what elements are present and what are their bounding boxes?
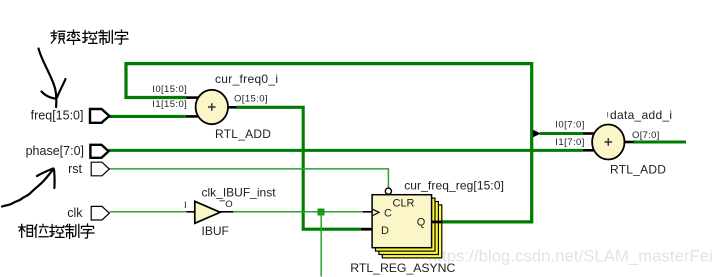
adder body	[592, 125, 624, 160]
annotation arrow to freq	[39, 49, 66, 108]
pin stub I	[187, 211, 196, 213]
plus sign	[208, 103, 216, 111]
wire: data_add O output	[634, 141, 687, 144]
annotation arrow to rst	[2, 169, 55, 207]
junction on clk_IBUF net	[318, 209, 325, 216]
wire: adder O to register D	[236, 107, 360, 229]
buffer triangle	[195, 201, 220, 223]
svg-text:Q: Q	[417, 216, 426, 228]
svg-text:phase[7:0]: phase[7:0]	[26, 144, 84, 158]
buffer clk_IBUF_inst	[184, 185, 276, 238]
junction arrow into data_add I0	[533, 130, 541, 137]
port clk	[67, 206, 109, 220]
wire: freq port to adder I1	[109, 115, 186, 118]
pin stub I1	[186, 115, 198, 118]
svg-text:I0[7:0]: I0[7:0]	[555, 119, 585, 130]
port rst	[68, 162, 109, 176]
svg-text:RTL_ADD: RTL_ADD	[215, 127, 271, 141]
wire: phase port to data_add I1	[109, 149, 583, 152]
svg-text:I1[7:0]: I1[7:0]	[555, 137, 585, 148]
svg-text:RTL_ADD: RTL_ADD	[610, 162, 666, 176]
adder U1 cur_freq0_i	[152, 72, 278, 141]
wire: clk_IBUF net (IBUF out to reg C)	[233, 211, 362, 213]
pin leader dash	[220, 200, 226, 202]
svg-text:cur_freq0_i: cur_freq0_i	[215, 72, 278, 86]
svg-text:IBUF: IBUF	[202, 224, 229, 238]
wire: net cur_freq (reg Q feedback) top bus	[126, 64, 532, 222]
svg-text:O: O	[225, 199, 232, 210]
CLR bubble	[385, 188, 391, 194]
pin stub Q	[432, 220, 443, 223]
pin stub I1	[583, 149, 594, 152]
stack shadow layer 3	[382, 205, 442, 258]
pin stub I0	[583, 132, 595, 135]
wire: clk_IBUF branch down	[320, 212, 322, 277]
svg-text:cur_freq_reg[15:0]: cur_freq_reg[15:0]	[404, 179, 504, 193]
stack shadow layer 2	[379, 202, 439, 255]
pin stub C	[363, 211, 372, 213]
plus sign	[605, 138, 613, 146]
annotation label 相位控制字	[19, 224, 94, 238]
stack shadow layer 1	[376, 198, 436, 251]
svg-text:CLR: CLR	[393, 198, 415, 210]
clock pin marker	[373, 209, 379, 215]
label anchor tick	[607, 112, 609, 118]
wire: bus branch to data_add I0	[540, 132, 583, 135]
svg-text:D: D	[381, 225, 389, 237]
port phase[7:0]	[26, 144, 109, 158]
pin stub O	[625, 141, 634, 144]
port freq[15:0]	[31, 109, 110, 123]
annotation label 频率控制字	[51, 30, 128, 44]
svg-text:rst: rst	[68, 162, 82, 176]
svg-text:freq[15:0]: freq[15:0]	[31, 109, 84, 123]
pin stub D	[361, 228, 372, 231]
svg-text:O[7:0]: O[7:0]	[632, 130, 660, 141]
svg-text:I0[15:0]: I0[15:0]	[152, 84, 187, 95]
adder body	[196, 90, 228, 124]
wire: clk net (port to IBUF)	[110, 211, 187, 213]
svg-text:clk_IBUF_inst: clk_IBUF_inst	[202, 185, 277, 199]
svg-text:clk: clk	[67, 206, 83, 220]
svg-text:O[15:0]: O[15:0]	[234, 94, 268, 105]
register main box	[372, 195, 432, 248]
adder U2 data_add_i	[555, 108, 672, 177]
wire: rst net	[110, 169, 389, 188]
svg-text:data_add_i: data_add_i	[610, 108, 672, 122]
pin stub I0	[186, 96, 198, 99]
pin stub O	[220, 211, 233, 213]
pin stub O	[228, 106, 237, 109]
svg-text:I1[15:0]: I1[15:0]	[152, 99, 187, 110]
svg-text:I: I	[184, 200, 187, 211]
register cur_freq_reg[15:0] RTL_REG_ASYNC	[350, 179, 504, 275]
svg-text:RTL_REG_ASYNC: RTL_REG_ASYNC	[350, 261, 455, 275]
svg-text:C: C	[384, 208, 392, 220]
svg-text:https://blog.csdn.net/SLAM_mas: https://blog.csdn.net/SLAM_masterFei	[428, 247, 713, 266]
